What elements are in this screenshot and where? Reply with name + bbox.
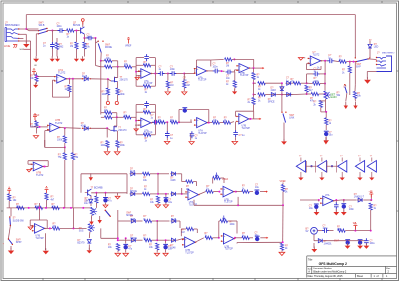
- ground C28: [333, 212, 339, 215]
- junction: [281, 94, 283, 96]
- resistor R27: [305, 85, 308, 92]
- wire: [44, 233, 46, 250]
- op-amp U7A: [197, 118, 208, 128]
- resistor R47: [142, 172, 150, 175]
- ground D13: [87, 250, 93, 253]
- wire: [335, 209, 337, 212]
- diode D13 zener: [87, 240, 91, 244]
- wire: [68, 79, 70, 84]
- svg-text:9V: 9V: [353, 223, 356, 225]
- junction: [44, 166, 46, 168]
- wire: [190, 119, 192, 122]
- capacitor C21 elco: [124, 245, 128, 249]
- pin: [376, 60, 377, 61]
- svg-text:1N4001: 1N4001: [324, 244, 333, 246]
- pin: [285, 112, 286, 113]
- svg-text:TL072P: TL072P: [242, 127, 251, 130]
- wire bend to U2A: [135, 67, 137, 72]
- wire: [165, 203, 167, 205]
- pin: [31, 168, 32, 169]
- power flag VREF L1: [8, 190, 10, 194]
- resistor R68: [338, 229, 346, 232]
- op-amp U3B: [239, 64, 249, 73]
- resistor R65: [205, 236, 213, 239]
- svg-text:4148: 4148: [171, 219, 177, 221]
- wire: [343, 200, 345, 203]
- wire: [64, 143, 66, 147]
- pin J1 tip: [18, 28, 19, 29]
- ground C24: [345, 246, 351, 249]
- wire: [157, 174, 159, 194]
- wire: [151, 134, 156, 136]
- wire: [107, 95, 109, 101]
- resistor R40: [116, 141, 119, 148]
- wire: [165, 194, 167, 197]
- wire: [27, 161, 29, 165]
- junction: [45, 207, 47, 209]
- junction: [117, 237, 119, 239]
- wire: [151, 85, 156, 87]
- pin: [59, 127, 60, 128]
- capacitor C4 feedback: [144, 54, 149, 61]
- resistor R15: [116, 88, 119, 95]
- svg-text:100k: 100k: [230, 224, 236, 226]
- wire: [314, 240, 317, 242]
- junction: [117, 239, 119, 241]
- pin: [185, 191, 186, 192]
- pin: [32, 225, 33, 226]
- wire: [44, 140, 46, 147]
- junction bus: [72, 78, 74, 80]
- wire: [117, 251, 119, 253]
- ground C20 hollow: [163, 253, 168, 256]
- svg-text:Blade under test MultiComp 2: Blade under test MultiComp 2: [313, 271, 347, 274]
- op-amp U6A: [141, 118, 151, 128]
- wire: [307, 93, 312, 95]
- svg-text:100n: 100n: [349, 209, 355, 211]
- wire: [112, 116, 117, 118]
- wire: [167, 74, 169, 81]
- svg-text:-: -: [240, 120, 241, 124]
- resistor R48: [142, 192, 150, 195]
- wire out: [249, 67, 260, 69]
- switch SW8 mode2: [105, 211, 110, 217]
- wire: [136, 75, 141, 77]
- junction: [181, 193, 183, 195]
- svg-text:+9V: +9V: [369, 191, 374, 193]
- junction inv2: [135, 120, 137, 122]
- wire: [184, 73, 195, 75]
- junction: [233, 58, 235, 60]
- wire long bus A: [72, 79, 74, 150]
- svg-text:2SK170: 2SK170: [120, 80, 129, 82]
- ground U10 hollow: [28, 227, 33, 230]
- pin: [236, 65, 237, 66]
- ground C11: [323, 140, 329, 143]
- capacitor C5: [158, 71, 165, 76]
- ground U6A hollow: [134, 129, 138, 131]
- svg-text:Date:: Date:: [308, 275, 314, 278]
- wire: [219, 220, 220, 222]
- pin: [138, 120, 139, 121]
- pin: [344, 84, 345, 85]
- pin: [195, 242, 196, 243]
- wire: [234, 237, 235, 240]
- pin: [12, 244, 13, 245]
- wire: [181, 174, 183, 182]
- wire: [35, 120, 37, 121]
- wire: [366, 72, 368, 79]
- ground U5 hollow: [298, 58, 303, 61]
- junction spare a: [310, 165, 312, 167]
- pin: [355, 57, 356, 58]
- ground C3: [50, 59, 55, 62]
- wire: [95, 193, 97, 196]
- svg-text:SW?: SW?: [105, 44, 111, 46]
- wire sw pole2 stub: [36, 33, 38, 35]
- ground R4: [80, 59, 85, 62]
- resistor R70: [95, 196, 98, 203]
- ground R8: [33, 85, 38, 88]
- ground SW5: [281, 141, 287, 144]
- pin: [234, 238, 235, 239]
- pin: [320, 198, 321, 199]
- wire: [235, 69, 240, 71]
- wire: [158, 193, 169, 195]
- wire fb left: [235, 111, 237, 116]
- junction: [100, 60, 102, 62]
- wire: [211, 59, 224, 62]
- svg-text:MBSTEREO: MBSTEREO: [5, 23, 20, 27]
- wire: [183, 74, 185, 81]
- resistor R44: [170, 121, 178, 124]
- wire tip to switch: [19, 28, 39, 30]
- wire: [51, 49, 53, 57]
- wire: [343, 209, 345, 212]
- ground R39 hollow: [104, 152, 110, 155]
- wire: [151, 64, 156, 66]
- pin: [47, 129, 48, 130]
- wire: [182, 193, 188, 195]
- wire R3 top: [75, 31, 77, 43]
- resistor R24: [258, 93, 266, 96]
- ground arrow spare: [325, 137, 327, 141]
- junction: [39, 126, 41, 128]
- resistor R12: [63, 153, 66, 160]
- capacitor C2: [87, 36, 94, 41]
- svg-text:-: -: [311, 61, 312, 65]
- wire: [56, 38, 58, 43]
- resistor R16 feedback: [143, 64, 151, 67]
- wire: [193, 200, 195, 206]
- svg-text:SW-B: SW-B: [39, 25, 45, 27]
- wire: [136, 85, 143, 87]
- pin: [194, 124, 195, 125]
- wire: [177, 238, 184, 240]
- op-amp spare G5: [367, 161, 376, 173]
- junction: [167, 73, 169, 75]
- port DET2: [257, 118, 259, 120]
- junction: [325, 111, 327, 113]
- pin: [46, 31, 47, 32]
- wire: [183, 88, 185, 91]
- wire to sw: [29, 30, 39, 32]
- resistor R54: [8, 194, 11, 201]
- pin: [43, 166, 44, 167]
- resistor R29: [311, 92, 319, 95]
- junction: [166, 121, 168, 123]
- wire battery minus: [313, 234, 315, 241]
- wire fb top2: [187, 109, 209, 111]
- svg-text:-: -: [224, 239, 225, 243]
- resistor R39: [106, 141, 109, 148]
- wire: [136, 134, 143, 136]
- svg-text:-: -: [35, 229, 36, 233]
- op-amp U9B: [223, 186, 234, 197]
- ground arrow rows: [90, 173, 92, 177]
- wire spare G5 pin: [371, 158, 373, 162]
- wire: [152, 239, 158, 241]
- wire: [265, 82, 282, 84]
- wire: [136, 71, 141, 73]
- wire: [29, 220, 31, 226]
- ground spare G3: [340, 178, 345, 181]
- svg-text:SLIDE-SW: SLIDE-SW: [13, 220, 25, 222]
- wire: [158, 173, 169, 175]
- resistor R1: [67, 29, 75, 32]
- junction: [324, 60, 326, 62]
- wire: [64, 147, 66, 152]
- capacitor C6: [170, 71, 177, 76]
- svg-text:TL072: TL072: [36, 173, 44, 177]
- wire: [306, 92, 308, 94]
- wire ring: [19, 33, 27, 35]
- resistor R25: [252, 98, 255, 105]
- junction: [156, 220, 158, 222]
- wire: [234, 70, 236, 72]
- capacitor C30 elco: [103, 198, 107, 202]
- wire down to C9: [324, 61, 326, 74]
- wire: [329, 230, 334, 232]
- wire: [95, 203, 97, 208]
- wire: [213, 237, 219, 239]
- wire: [135, 124, 141, 126]
- wire U1A out: [66, 78, 82, 80]
- op-amp U4B vref buffer: [33, 162, 43, 171]
- wire: [317, 230, 322, 232]
- wire: [152, 220, 158, 222]
- wire mode bypass: [95, 43, 97, 66]
- wire sg link: [23, 48, 30, 50]
- pin: [10, 225, 11, 226]
- junction: [157, 193, 159, 195]
- wire: [118, 66, 124, 68]
- pin: [182, 244, 183, 245]
- capacitor C23: [322, 228, 329, 233]
- wire rows bus: [126, 174, 128, 194]
- wire: [125, 238, 127, 243]
- wire: [313, 243, 315, 248]
- wire: [52, 30, 58, 32]
- wire fb bottom: [306, 69, 321, 71]
- wire out: [199, 192, 206, 195]
- junction: [28, 207, 30, 209]
- svg-text:SW?: SW?: [356, 64, 362, 66]
- wire: [30, 225, 33, 227]
- switch SW3 bypass: [356, 59, 368, 62]
- svg-text:TL072P: TL072P: [185, 251, 194, 254]
- wire: [236, 243, 238, 244]
- svg-text:LINE: LINE: [4, 44, 10, 48]
- wire Q1 collector: [82, 22, 84, 27]
- wire: [168, 73, 170, 75]
- pin: [105, 210, 106, 211]
- svg-text:VREF: VREF: [280, 180, 287, 183]
- wire: [321, 111, 326, 113]
- resistor R60: [144, 219, 152, 222]
- wire out: [333, 199, 341, 202]
- svg-text:LED: LED: [374, 47, 379, 49]
- resistor R26: [293, 82, 301, 85]
- diode D3: [285, 82, 292, 84]
- wire: [370, 200, 373, 201]
- wire source down: [117, 82, 119, 89]
- junction: [105, 192, 107, 194]
- op-amp U10: [35, 224, 45, 234]
- capacitor C17: [233, 130, 238, 137]
- power flag VREF mid: [128, 39, 130, 44]
- wire: [52, 79, 55, 81]
- wire: [100, 228, 102, 238]
- switch SW6 slide: [9, 218, 12, 226]
- pin: [194, 119, 195, 120]
- junction: [95, 192, 97, 194]
- junction cap node: [51, 30, 53, 32]
- resistor R59: [52, 227, 60, 230]
- junction rail-tip: [25, 28, 27, 30]
- junction: [282, 204, 284, 206]
- junction: [353, 61, 355, 63]
- resistor R23: [258, 82, 266, 85]
- wire out: [207, 122, 212, 124]
- wire: [300, 199, 319, 201]
- junction: [64, 146, 66, 148]
- wire: [318, 200, 320, 202]
- transistor Q1 body: [80, 28, 82, 34]
- wire: [64, 30, 67, 32]
- diode D11: [170, 193, 177, 195]
- svg-text:MBSTEREO: MBSTEREO: [382, 53, 395, 55]
- wire to U1A+: [37, 76, 56, 78]
- wire: [150, 173, 158, 175]
- wire: [194, 228, 198, 230]
- wire: [253, 83, 255, 94]
- capacitor C13: [152, 120, 159, 125]
- svg-text:4148: 4148: [271, 90, 277, 92]
- wire fb left: [135, 58, 137, 87]
- ground R62 hollow: [154, 253, 159, 256]
- ground battery: [311, 249, 317, 252]
- wire: [345, 85, 347, 86]
- svg-text:100k: 100k: [120, 145, 126, 147]
- wire LED top: [369, 41, 371, 45]
- wire out: [249, 118, 257, 120]
- junction: [234, 237, 236, 239]
- svg-text:SW?: SW?: [289, 115, 295, 117]
- wire: [72, 150, 74, 153]
- wire: [88, 232, 91, 238]
- wire: [125, 249, 127, 252]
- svg-text:100n: 100n: [213, 66, 219, 68]
- ground C17 hollow: [232, 141, 238, 144]
- svg-text:1M: 1M: [226, 66, 229, 68]
- switch SW4 link: [345, 87, 347, 94]
- ground output jack: [364, 80, 371, 84]
- pin: [151, 73, 152, 74]
- resistor R46: [223, 121, 231, 124]
- wire spare link a: [306, 165, 318, 167]
- wire fb left2: [135, 105, 137, 135]
- pin: [102, 41, 103, 42]
- power flag +9V: [370, 194, 372, 198]
- wire: [83, 38, 85, 42]
- junction spare b: [331, 165, 333, 167]
- ground C30 hollow: [103, 205, 108, 208]
- wire: [234, 191, 236, 193]
- resistor R56: [17, 206, 25, 209]
- junction: [324, 83, 326, 85]
- resistor R63: [116, 244, 119, 251]
- pin: [194, 72, 195, 73]
- wire: [260, 237, 264, 239]
- resistor R7: [124, 65, 132, 68]
- wire fb right2: [154, 105, 156, 135]
- wire: [315, 209, 317, 212]
- power flag VREF U1A bias: [33, 72, 35, 76]
- capacitor C10: [327, 59, 334, 64]
- diode D19: [357, 199, 364, 201]
- wire: [8, 193, 10, 195]
- svg-text:TL072: TL072: [58, 71, 66, 75]
- wire: [156, 221, 158, 240]
- wire: [116, 113, 118, 118]
- wire: [101, 112, 105, 114]
- ground C25: [357, 246, 363, 249]
- resistor R34: [319, 100, 322, 107]
- transistor T1 JFET: [114, 77, 116, 83]
- resistor R51: [206, 190, 214, 193]
- wire: [137, 173, 143, 175]
- svg-text:10R: 10R: [337, 229, 342, 231]
- junction: [324, 93, 326, 95]
- potentiometer RV3: [91, 207, 94, 215]
- wire: [34, 74, 37, 76]
- capacitor C7: [213, 69, 220, 74]
- wire mode bypass link: [96, 66, 101, 67]
- pin: [82, 78, 83, 79]
- pin: [9, 216, 10, 217]
- svg-text:-: -: [189, 195, 190, 199]
- svg-text:-: -: [142, 123, 143, 127]
- wire link bus down: [281, 95, 283, 113]
- svg-text:TL072P: TL072P: [198, 132, 207, 135]
- wire: [234, 72, 236, 81]
- diode D14: [130, 220, 137, 222]
- svg-text:100u: 100u: [370, 243, 376, 245]
- wire fb left: [196, 60, 198, 69]
- switch SW1 pole A: [39, 28, 48, 30]
- wire: [254, 82, 257, 84]
